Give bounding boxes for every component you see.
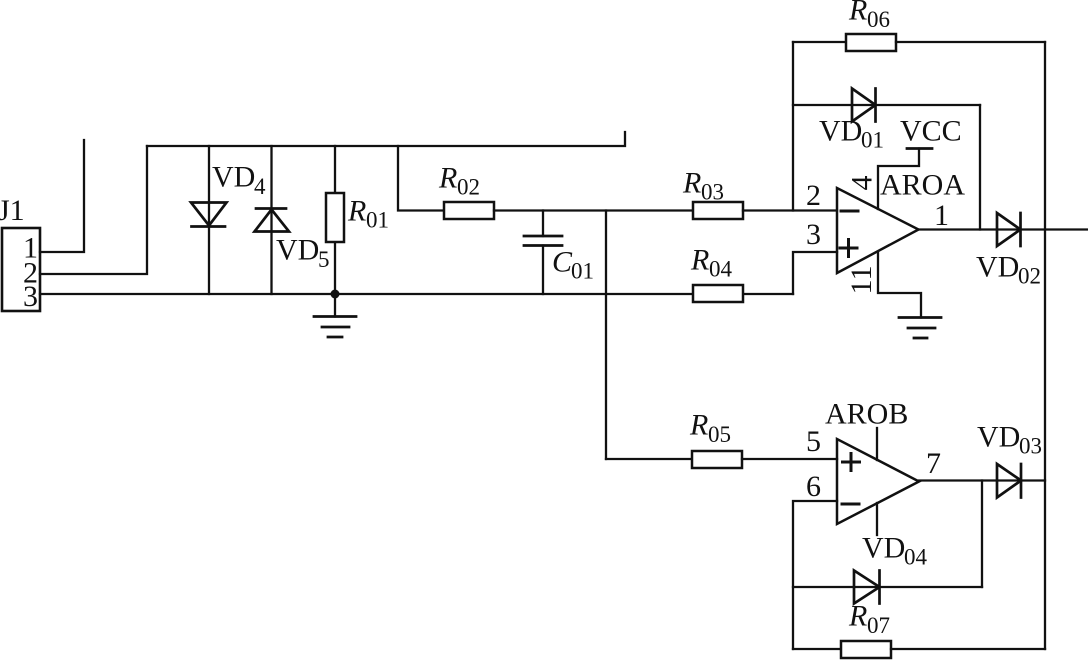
wire pin2 of J1 to top bus	[40, 146, 147, 274]
wire pin6	[793, 501, 837, 649]
svg-text:VD: VD	[212, 161, 255, 194]
pin 4 stub and VCC	[878, 149, 919, 210]
resistor R04	[693, 285, 743, 302]
svg-text:03: 03	[1019, 434, 1042, 459]
resistor R03	[693, 202, 743, 219]
diode VD01	[793, 104, 980, 106]
wire branch VD5	[270, 146, 272, 294]
diode VD04	[793, 586, 982, 588]
diode VD5	[255, 209, 290, 232]
diode VD02	[997, 213, 1021, 246]
connector J1	[2, 228, 40, 311]
svg-text:4: 4	[845, 176, 878, 191]
wire bus to R02	[398, 146, 444, 211]
node junction dot	[331, 290, 340, 299]
svg-text:6: 6	[806, 470, 821, 503]
svg-text:J1: J1	[0, 194, 25, 227]
op-amp U2 AROB	[837, 439, 919, 524]
wire feedback left rail upper	[792, 42, 794, 211]
wire VD01 down to output	[979, 105, 981, 230]
resistor R01	[326, 193, 344, 242]
wire top bus	[147, 132, 625, 146]
wire R05 to pin5	[742, 458, 837, 460]
svg-text:4: 4	[254, 174, 266, 199]
wire branch VD4	[208, 146, 210, 294]
svg-text:R: R	[682, 167, 701, 200]
svg-text:05: 05	[708, 422, 731, 447]
svg-text:01: 01	[571, 259, 594, 284]
wire pin3 bottom common	[40, 293, 793, 295]
AROB power stubs	[876, 428, 878, 460]
wire AROA output	[919, 228, 1088, 230]
diode VD4	[191, 203, 227, 227]
wire R05 input	[606, 458, 692, 460]
svg-text:11: 11	[845, 266, 878, 295]
svg-text:R: R	[689, 409, 708, 442]
svg-text:06: 06	[867, 7, 890, 32]
wire node down to R05	[605, 211, 607, 460]
svg-text:01: 01	[861, 128, 884, 153]
svg-text:VD: VD	[976, 251, 1019, 284]
svg-text:02: 02	[457, 175, 480, 200]
svg-text:1: 1	[934, 199, 949, 232]
resistor R02	[444, 202, 494, 219]
capacitor C01	[542, 211, 544, 237]
svg-text:AROB: AROB	[825, 398, 908, 431]
svg-text:R: R	[690, 244, 709, 277]
wire right rail	[1044, 42, 1046, 649]
svg-text:5: 5	[806, 425, 821, 458]
resistor R05	[692, 451, 742, 468]
wire signal R02 to R03	[494, 209, 693, 211]
svg-text:VD: VD	[977, 421, 1020, 454]
svg-text:3: 3	[23, 280, 38, 313]
svg-text:R: R	[347, 195, 366, 228]
svg-text:5: 5	[318, 247, 330, 272]
wire R03 to pin2	[743, 209, 837, 211]
svg-text:04: 04	[904, 545, 928, 570]
wire AROB output	[919, 479, 1045, 481]
svg-text:01: 01	[366, 208, 389, 233]
svg-text:R: R	[438, 162, 457, 195]
svg-text:03: 03	[701, 180, 724, 205]
wire R04 to pin3	[793, 252, 837, 294]
svg-text:7: 7	[926, 447, 941, 480]
diode VD03	[997, 464, 1021, 498]
wire tap down to VD04	[981, 481, 983, 588]
ground left	[334, 294, 336, 317]
svg-text:2: 2	[806, 179, 821, 212]
svg-text:VCC: VCC	[900, 115, 962, 148]
wire branch R01	[334, 146, 336, 193]
svg-text:C: C	[552, 246, 573, 279]
svg-text:R: R	[848, 600, 867, 633]
svg-text:07: 07	[867, 613, 890, 638]
svg-text:02: 02	[1018, 264, 1041, 289]
svg-text:VD: VD	[276, 234, 319, 267]
svg-text:04: 04	[709, 257, 733, 282]
svg-text:R: R	[848, 0, 867, 27]
op-amp U1 AROA	[837, 188, 919, 273]
svg-text:VD: VD	[862, 532, 905, 565]
svg-text:3: 3	[806, 218, 821, 251]
svg-text:VD: VD	[819, 115, 862, 148]
svg-text:AROA: AROA	[880, 169, 965, 202]
resistor R07	[793, 648, 841, 650]
resistor R06	[793, 41, 846, 43]
wire pin1 of J1	[40, 140, 84, 252]
pin 11 stub to ground	[878, 252, 921, 318]
